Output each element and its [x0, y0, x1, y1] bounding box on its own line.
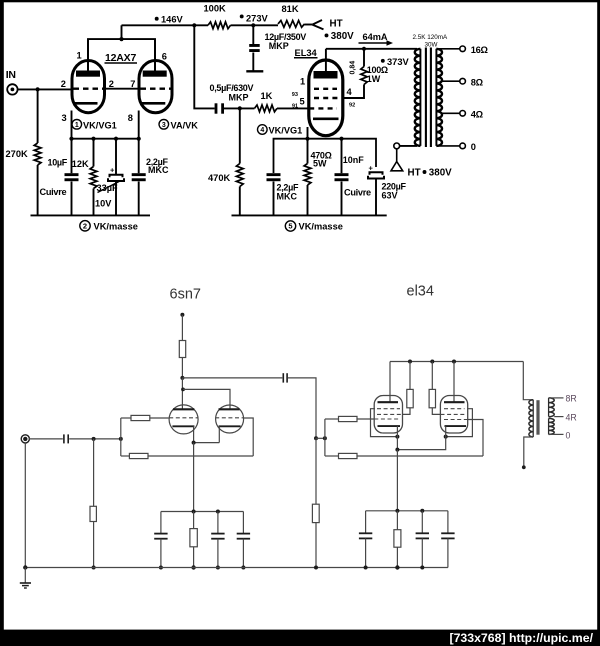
- el34 A g3 dashed: [377, 408, 400, 410]
- transformer OT secondary winding: [435, 49, 437, 146]
- svg-text:470K: 470K: [208, 173, 231, 183]
- svg-text:380V: 380V: [429, 167, 452, 178]
- frame border left: [0, 0, 4, 632]
- resistor 6sn7 grid leak: [93, 439, 95, 506]
- OT2 primary winding: [532, 400, 534, 437]
- node el34 grid junction: [314, 436, 318, 440]
- svg-text:100K: 100K: [204, 4, 227, 14]
- triode A cathode lead: [193, 426, 195, 442]
- svg-text:8: 8: [128, 113, 133, 123]
- svg-text:1: 1: [77, 51, 82, 61]
- capacitor 6sn7 k bypass 3: [242, 512, 244, 534]
- resistor el34 grid A: [325, 418, 339, 420]
- tap 8 ohm: [442, 80, 460, 82]
- leader line 33uF: [98, 181, 122, 193]
- wire el34 B grid return: [468, 420, 483, 457]
- wire top rail 146V section: [122, 24, 209, 26]
- svg-text:VK/VG1: VK/VG1: [83, 120, 117, 130]
- svg-text:380V: 380V: [331, 31, 354, 42]
- input jack bottom schematic: [21, 435, 29, 443]
- terminal HT chevron: [312, 20, 322, 25]
- tube el34 B envelope: [440, 396, 467, 434]
- svg-text:el34: el34: [407, 283, 434, 299]
- wire screen g2 to 100R: [343, 85, 364, 99]
- svg-text:IN: IN: [6, 69, 16, 81]
- wire 146V node down: [194, 25, 214, 108]
- tube 6sn7 triode B envelope: [216, 405, 244, 433]
- capacitor 10nF Cuivre: [341, 139, 343, 174]
- wire plate rail to OT bottom: [523, 362, 533, 400]
- V1a grid dashed: [74, 87, 104, 89]
- node 373V: [362, 47, 366, 51]
- cathode rail EL34: [274, 139, 377, 173]
- svg-text:2: 2: [83, 222, 87, 231]
- svg-text:1K: 1K: [261, 91, 273, 101]
- wire jack to input cap: [29, 438, 63, 440]
- tap 0: [549, 433, 564, 435]
- OT2 secondary winding upper: [548, 398, 550, 417]
- V2 cathode lead: [307, 127, 309, 139]
- svg-text:0,84: 0,84: [350, 61, 357, 75]
- svg-text:81K: 81K: [282, 4, 299, 14]
- capacitor 2.2uF MKC stage2: [267, 173, 281, 176]
- svg-text:92: 92: [349, 102, 355, 108]
- svg-text:3: 3: [162, 122, 166, 129]
- tap 0 ohm: [436, 145, 459, 147]
- resistor el34 grid B: [325, 455, 339, 457]
- svg-text:6sn7: 6sn7: [170, 286, 201, 302]
- svg-text:[733x768] http://upic.me/: [733x768] http://upic.me/: [449, 631, 593, 645]
- node bracket junction: [119, 37, 123, 41]
- OT2 core: [536, 400, 539, 435]
- V2 grid g1 dashed: [309, 107, 337, 109]
- svg-text:2: 2: [61, 79, 66, 89]
- cathode rail stage 1: [72, 138, 139, 140]
- triode B grid dashed: [215, 417, 244, 419]
- tap 4R: [554, 416, 563, 418]
- svg-text:10nF: 10nF: [343, 155, 365, 165]
- svg-text:10V: 10V: [95, 198, 112, 208]
- capacitor 10uF Cuivre: [71, 139, 73, 174]
- svg-text:91: 91: [292, 103, 298, 109]
- svg-text:5: 5: [288, 222, 292, 231]
- capacitor input coupling: [63, 434, 65, 443]
- tube 6sn7 triode A envelope: [169, 405, 198, 434]
- svg-text:8Ω: 8Ω: [471, 77, 484, 87]
- el34 A g1 dashed: [374, 418, 400, 420]
- capacitor interstage coupling: [282, 373, 284, 382]
- wire cap to 1K: [224, 107, 255, 109]
- wire 273V down to cap: [252, 25, 254, 44]
- wire jack ground: [24, 443, 26, 568]
- svg-text:HT: HT: [408, 167, 421, 178]
- capacitor 2.2uF MKC stage1: [138, 139, 140, 174]
- svg-text:270K: 270K: [6, 149, 29, 159]
- svg-text:64mA: 64mA: [363, 32, 388, 42]
- label 4 VK/VG1: [258, 125, 268, 135]
- V1b cathode bar: [141, 102, 165, 105]
- capacitor el34 k bypass 1: [365, 511, 367, 533]
- V1a anode lead: [87, 39, 89, 70]
- node 273V: [251, 23, 255, 27]
- svg-text:VK/VG1: VK/VG1: [269, 126, 303, 136]
- node plate junction: [180, 376, 184, 380]
- svg-text:2.5K 120mA: 2.5K 120mA: [413, 34, 448, 41]
- wire coupling cap to el34 stage: [288, 378, 316, 438]
- capacitor 220uF 63V electrolytic: [370, 172, 383, 175]
- wire grid interconnect V1a-V1b: [104, 88, 140, 90]
- wire anode tie: [181, 378, 183, 409]
- capacitor el34 k bypass 3: [447, 511, 449, 533]
- label 5 VK/masse: [285, 221, 295, 231]
- svg-text:10µF: 10µF: [48, 157, 68, 167]
- wire bracket to rail: [121, 25, 123, 39]
- V1a anode plate bar: [76, 71, 100, 77]
- V1a cathode bar: [75, 102, 98, 105]
- 6sn7 cathode RC rail: [161, 511, 244, 513]
- triode B cathode lead: [218, 426, 220, 442]
- svg-text:MKC: MKC: [277, 192, 298, 202]
- el34 A g2 dashed: [377, 413, 402, 415]
- capacitor 6sn7 k bypass 1: [160, 512, 162, 534]
- svg-text:+: +: [369, 163, 374, 172]
- wire el34 A g3 tie to cathode: [371, 409, 398, 437]
- V2 cathode bar: [313, 118, 339, 121]
- arrow 64mA: [359, 42, 388, 44]
- svg-text:373V: 373V: [387, 57, 410, 67]
- svg-text:+: +: [110, 166, 115, 175]
- label 2 VK/masse: [80, 221, 90, 231]
- el34 B cathode bar: [445, 425, 467, 427]
- triode A anode bar: [173, 408, 194, 410]
- ground rail stage 1: [31, 214, 151, 216]
- node grid leak junction: [92, 437, 96, 441]
- resistor el34 cathode: [396, 511, 398, 530]
- svg-text:VA/VK: VA/VK: [171, 120, 199, 130]
- svg-text:5W: 5W: [313, 158, 327, 168]
- capacitor 0.5uF/630V MKP coupling: [215, 103, 218, 113]
- tube V1b 12AX7 triode 2 envelope: [139, 61, 172, 113]
- resistor 81K: [278, 21, 305, 28]
- svg-text:4: 4: [347, 87, 353, 97]
- V1b grid dashed: [141, 87, 171, 89]
- wire grid split vertical: [120, 418, 122, 456]
- svg-text:1: 1: [300, 77, 305, 87]
- resistor 100R 1W: [361, 67, 367, 85]
- svg-text:HT: HT: [330, 19, 343, 30]
- svg-text:30W: 30W: [425, 41, 438, 48]
- svg-text:0: 0: [471, 142, 476, 152]
- svg-text:1W: 1W: [367, 74, 381, 84]
- wire triode B grid return: [244, 418, 253, 456]
- svg-text:Cuivre: Cuivre: [344, 188, 371, 198]
- el34 A cathode lead: [396, 426, 398, 450]
- input jack IN: [7, 84, 17, 94]
- svg-text:4R: 4R: [566, 412, 577, 422]
- el34 B g3 dashed: [444, 408, 465, 410]
- svg-text:MKC: MKC: [148, 165, 169, 175]
- svg-text:VK/masse: VK/masse: [94, 222, 138, 232]
- svg-text:EL34: EL34: [295, 48, 318, 58]
- el34 B g1 dashed: [444, 419, 468, 421]
- tube el34 A envelope: [374, 396, 402, 434]
- triode A grid dashed: [169, 417, 198, 419]
- wire rail 273V section: [231, 24, 279, 26]
- triode A cathode bar: [172, 425, 194, 427]
- svg-text:63V: 63V: [382, 190, 398, 200]
- el34 B cathode lead: [397, 426, 445, 450]
- resistor 12K: [93, 139, 95, 167]
- wire HT terminal down: [396, 149, 398, 162]
- tap 8R: [549, 397, 564, 399]
- node input junction: [36, 87, 40, 91]
- wire anode rail to OT: [326, 48, 417, 50]
- V1b anode plate bar: [143, 71, 167, 77]
- svg-text:6: 6: [162, 52, 167, 62]
- wire input cap to grid split: [69, 438, 121, 440]
- tap 4 ohm: [442, 112, 460, 114]
- el34 A cathode bar: [378, 425, 401, 427]
- node grid junction 470K: [238, 106, 242, 110]
- wire OT2 primary return: [524, 437, 533, 467]
- V2 grid g3 dashed: [314, 88, 337, 90]
- triode B cathode bar: [219, 425, 241, 427]
- tube V1a 12AX7 triode 1 envelope: [72, 61, 105, 113]
- tap 16 ohm: [436, 48, 459, 50]
- wire plate junction to coupling cap: [182, 377, 282, 379]
- resistor 470K grid leak: [239, 108, 241, 163]
- svg-text:273V: 273V: [246, 14, 269, 24]
- V2 anode plate bar: [314, 71, 338, 79]
- V2 anode lead: [325, 49, 327, 71]
- V2 grid g2 dashed: [314, 97, 343, 99]
- svg-text:1: 1: [75, 122, 79, 129]
- capacitor 6sn7 k bypass 2: [217, 512, 219, 534]
- wire cap to ground bar: [252, 53, 254, 71]
- resistor grid B: [121, 455, 130, 457]
- wire rail to HT: [305, 24, 313, 26]
- bottom watermark bar: [0, 630, 600, 646]
- resistor 270K: [34, 143, 41, 165]
- node grid split junction: [119, 437, 123, 441]
- OT2 secondary winding lower: [548, 418, 550, 434]
- svg-text:12K: 12K: [72, 159, 89, 169]
- svg-text:3: 3: [62, 113, 67, 123]
- triode B anode bar: [219, 408, 240, 410]
- el34 B anode bar: [444, 401, 465, 403]
- resistor screen A: [409, 362, 411, 390]
- transformer OT primary winding: [419, 49, 421, 146]
- svg-text:4: 4: [260, 127, 264, 134]
- frame border top: [0, 0, 600, 2]
- tube V2 EL34 envelope: [309, 60, 343, 136]
- svg-text:7: 7: [130, 79, 135, 89]
- ground bar under 12uF cap: [246, 70, 263, 72]
- wire input to V1 grid: [18, 88, 73, 90]
- ground rail bottom schematic: [25, 567, 448, 569]
- svg-text:MKP: MKP: [269, 41, 289, 51]
- svg-text:0: 0: [566, 430, 571, 440]
- resistor 6sn7 cathode: [193, 512, 195, 529]
- node el34 cathode tie: [395, 448, 399, 452]
- el34 plate rail: [390, 361, 523, 363]
- wire el34 cathode down: [396, 450, 398, 511]
- el34 cathode RC rail: [366, 510, 448, 512]
- el34 A anode bar: [378, 401, 399, 403]
- node el34 grid split: [316, 437, 325, 439]
- wire el34 B g3 tie to cathode: [446, 409, 473, 437]
- wire el34 A anode: [389, 362, 391, 403]
- node 146V: [192, 23, 196, 27]
- svg-text:MKP: MKP: [229, 92, 249, 102]
- wire el34 B anode: [453, 362, 455, 403]
- node 6sn7 B+ dot: [180, 313, 184, 317]
- V1b cathode lead: [138, 111, 140, 139]
- svg-text:VK/masse: VK/masse: [299, 222, 343, 232]
- capacitor 33uF 10V electrolytic: [115, 139, 117, 175]
- V1b anode lead: [154, 39, 156, 70]
- wire cathodes down to RC: [193, 443, 195, 512]
- resistor 1K grid stopper: [255, 105, 278, 112]
- svg-text:146V: 146V: [161, 15, 184, 25]
- capacitor el34 k bypass 2: [421, 511, 423, 533]
- ground rail EL34 stage: [232, 214, 387, 216]
- ground symbol: [24, 568, 26, 583]
- svg-text:Cuivre: Cuivre: [40, 187, 67, 197]
- svg-text:16Ω: 16Ω: [471, 45, 489, 55]
- label 3 VA/VK: [159, 120, 169, 130]
- el34 B g2 dashed: [441, 413, 465, 415]
- wire OT primary bottom to HT terminal: [400, 145, 418, 147]
- svg-text:93: 93: [292, 92, 298, 98]
- frame border right: [597, 0, 600, 632]
- svg-text:4Ω: 4Ω: [471, 110, 484, 120]
- terminal HT triangle: [391, 162, 403, 171]
- resistor 470R 5W: [307, 139, 309, 164]
- wire anode bracket: [88, 39, 155, 70]
- resistor screen B: [431, 362, 433, 390]
- svg-text:5: 5: [300, 96, 305, 106]
- capacitor 12uF/350V MKP: [249, 44, 260, 47]
- wire cathode tie: [194, 442, 220, 444]
- resistor grid A: [121, 417, 131, 419]
- V1a cathode lead: [71, 111, 73, 139]
- label 1 VK/VG1: [72, 120, 82, 130]
- svg-text:2: 2: [109, 79, 114, 89]
- resistor 100K: [208, 22, 231, 29]
- resistor 6sn7 plate load: [181, 315, 183, 341]
- wire 1K to EL34 grid: [277, 107, 310, 109]
- svg-text:8R: 8R: [566, 394, 577, 404]
- transformer core lines: [425, 48, 427, 148]
- wire input junction down to ground: [37, 89, 39, 143]
- resistor el34 grid leak: [315, 438, 317, 504]
